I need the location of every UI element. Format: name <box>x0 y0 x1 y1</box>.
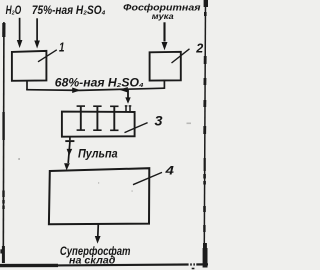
mixer pipe 1 <box>77 106 85 130</box>
arrow junction down into mixer <box>125 90 130 104</box>
arrow phosphorite into box 2 <box>162 22 168 50</box>
leader line to label 1 <box>38 50 57 62</box>
arrow H2O into box 1 <box>17 18 23 48</box>
chamber box 4 <box>49 168 149 224</box>
svg-text:3: 3 <box>155 112 163 128</box>
scan speck <box>187 123 192 125</box>
apparatus box 1 (dilution tank) <box>12 51 47 81</box>
wire: box 2 outlet leg down <box>163 81 165 89</box>
arrow 75% acid into box 1 <box>34 18 40 48</box>
svg-text:4: 4 <box>164 164 174 178</box>
page left border <box>0 22 4 263</box>
leader line to label 3 <box>125 123 148 133</box>
svg-text:мука: мука <box>152 11 174 21</box>
mixer pipe 2 <box>93 106 101 130</box>
wire: box 1 outlet leg down <box>26 81 28 90</box>
scan speck <box>18 158 20 159</box>
arrowhead phosphorite flow left <box>119 87 128 93</box>
leader line to label 4 <box>133 172 162 184</box>
arrow superphosphate out <box>95 224 101 244</box>
mixer outlet stub and flange <box>65 137 74 141</box>
svg-text:68%-ная H₂SO₄: 68%-ная H₂SO₄ <box>55 75 144 89</box>
svg-text:на склад: на склад <box>69 256 115 267</box>
svg-text:Пульпа: Пульпа <box>78 146 118 160</box>
svg-text:1: 1 <box>59 40 65 55</box>
arrowhead 68% acid flow right <box>72 88 81 94</box>
leader line to label 2 <box>172 49 190 63</box>
scan speck <box>132 191 133 192</box>
mixer box 3 <box>62 112 135 137</box>
svg-text:75%-ная H₂SO₄: 75%-ная H₂SO₄ <box>32 4 106 17</box>
wire: 68% acid horizontal line to junction <box>26 88 164 90</box>
page bottom border <box>0 264 208 265</box>
svg-text:H₂O: H₂O <box>6 4 22 17</box>
page right border <box>192 0 208 269</box>
mixer inlet nozzle <box>125 106 132 112</box>
svg-text:2: 2 <box>195 40 204 55</box>
scan speck <box>98 182 99 183</box>
arrow pulp down into chamber 4 <box>64 142 72 171</box>
mixer pipe 3 <box>110 106 118 130</box>
apparatus box 2 (feed hopper) <box>150 52 181 81</box>
